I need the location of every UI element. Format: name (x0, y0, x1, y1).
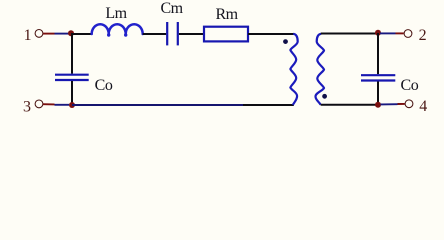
wire C0 right bottom plate to J4 (377, 82, 379, 106)
wire Lm to Cm (143, 33, 167, 35)
wire transformer secondary bottom to J4 (bottom right rail) (321, 104, 377, 106)
svg-text:Co: Co (401, 77, 419, 94)
transformer secondary winding (316, 34, 325, 105)
node J3 junction dot (69, 102, 75, 108)
transformer primary winding (290, 34, 297, 105)
capacitor C0 right plates (361, 75, 395, 80)
wire port3 to node J3 (navy) (55, 104, 70, 106)
svg-text:4: 4 (419, 98, 427, 115)
port 1 terminal circle (35, 30, 43, 38)
capacitor Cm plates (167, 22, 178, 45)
wire J4 to port4 (navy) (381, 103, 398, 105)
wire J1 down to C0 left top plate (71, 33, 73, 73)
inductor Lm coil joint blobs (107, 33, 110, 36)
bottom rail J3 toward transformer (navy section) (72, 104, 243, 106)
capacitor C0 left plates (55, 75, 89, 80)
port 2 stub wire (maroon) (396, 32, 404, 34)
wire port1 to node J1 (navy) (55, 33, 70, 35)
bottom rail black section to transformer primary (243, 104, 294, 106)
wire C0 left bottom plate to J3 (71, 81, 73, 106)
port 4 stub wire (maroon) (398, 103, 405, 105)
node J2 junction dot (375, 30, 381, 36)
wire J1 to Lm (top rail) (71, 33, 93, 35)
svg-text:3: 3 (23, 98, 31, 115)
svg-text:Co: Co (95, 77, 113, 94)
port 2 terminal circle (404, 30, 412, 38)
svg-text:Lm: Lm (105, 5, 127, 22)
node J1 junction dot (68, 30, 74, 36)
wire Cm to Rm (179, 33, 203, 35)
port 1 stub wire (maroon) (43, 33, 55, 35)
port 4 terminal circle (405, 100, 413, 108)
svg-text:2: 2 (419, 27, 427, 44)
wire Rm to transformer primary top (248, 33, 294, 35)
resistor Rm box (204, 27, 248, 42)
wire J2 down to C0 right top plate (377, 33, 379, 74)
svg-text:1: 1 (24, 27, 32, 44)
wire transformer secondary top to J2 (top right rail) (321, 33, 377, 35)
inductor Lm coil (92, 24, 143, 34)
transformer secondary polarity dot (322, 94, 327, 99)
svg-text:Cm: Cm (161, 0, 184, 17)
transformer primary polarity dot (283, 39, 288, 44)
node J4 junction dot (375, 102, 381, 108)
port 3 stub wire (maroon) (43, 103, 55, 105)
port 3 terminal circle (35, 100, 43, 108)
svg-text:Rm: Rm (216, 6, 239, 23)
wire J2 to port2 (navy) (380, 32, 396, 34)
